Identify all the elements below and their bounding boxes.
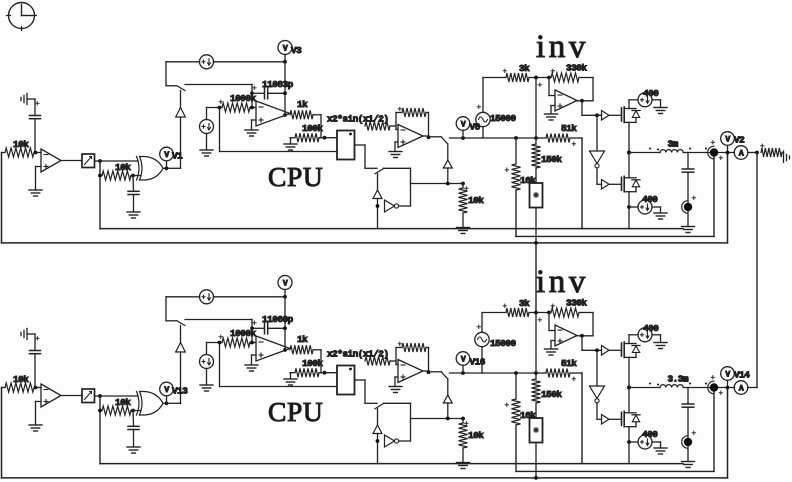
svg-text:V14: V14 [734, 370, 750, 381]
svg-text:V: V [283, 45, 288, 54]
svg-text:400: 400 [642, 194, 658, 205]
svg-text:V: V [164, 151, 169, 160]
svg-text:400: 400 [643, 88, 659, 99]
svg-text:V8: V8 [470, 122, 481, 133]
svg-text:51k: 51k [561, 123, 577, 134]
svg-text:inv: inv [536, 29, 589, 65]
svg-text:1000k: 1000k [230, 93, 257, 104]
svg-text:100k: 100k [302, 123, 323, 134]
svg-text:3k: 3k [519, 63, 530, 74]
svg-text:V: V [725, 135, 730, 144]
svg-text:CPU: CPU [268, 161, 323, 192]
svg-text:3.3m: 3.3m [668, 374, 689, 385]
svg-text:15000: 15000 [490, 113, 517, 124]
svg-text:11083p: 11083p [262, 79, 294, 90]
svg-text:15000: 15000 [490, 338, 517, 349]
svg-text:16k: 16k [520, 175, 536, 186]
svg-text:V3: V3 [291, 45, 302, 56]
svg-text:V16: V16 [470, 357, 486, 368]
svg-text:V: V [461, 120, 466, 129]
svg-text:V1: V1 [172, 151, 183, 162]
svg-text:1k: 1k [297, 99, 308, 110]
svg-text:A: A [739, 150, 744, 159]
svg-text:150k: 150k [541, 154, 562, 165]
svg-text:3m: 3m [668, 139, 679, 150]
svg-text:11060p: 11060p [262, 314, 294, 325]
svg-text:10k: 10k [468, 195, 484, 206]
svg-text:V2: V2 [734, 135, 745, 146]
svg-text:V13: V13 [172, 386, 188, 397]
